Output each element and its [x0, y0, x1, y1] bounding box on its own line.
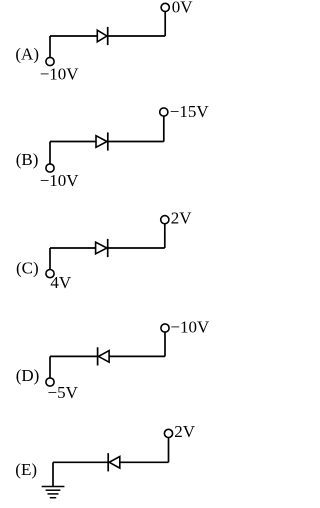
wire horizontal right segment (D) [109, 355, 165, 357]
terminal (D) bottom, -5V node [46, 378, 54, 386]
wire down to -5V terminal (D) [49, 356, 51, 377]
wire down to -10V terminal (A) [49, 36, 51, 57]
svg-text:(B): (B) [16, 150, 39, 169]
wire down to 4V terminal (C) [49, 248, 51, 269]
svg-text:−10V: −10V [40, 65, 80, 84]
wire from -10V terminal down [164, 332, 166, 356]
terminal (B) top, -15V node [160, 108, 168, 116]
svg-text:2V: 2V [174, 422, 196, 441]
svg-text:2V: 2V [171, 209, 193, 228]
terminal (E) top, 2V node [164, 429, 172, 437]
svg-text:(D): (D) [16, 366, 40, 385]
diode (A) pointing right [97, 27, 107, 45]
wire from 0V terminal down [164, 12, 166, 37]
node label -10V [40, 65, 80, 84]
node label 2V (E) [174, 422, 196, 441]
terminal (A) bottom, -10V node [46, 57, 54, 65]
diode (B) pointing right [96, 132, 108, 150]
svg-text:−15V: −15V [170, 102, 210, 121]
node label 0V [172, 0, 194, 17]
node label -15V [170, 102, 210, 121]
label (B) [16, 150, 39, 169]
wire horizontal right segment (A) [108, 35, 166, 37]
svg-text:0V: 0V [172, 0, 194, 17]
label (E) [15, 460, 37, 479]
terminal (D) top, -10V node [161, 324, 169, 332]
diode (C) pointing right [96, 239, 108, 257]
terminal (A) top, 0V node [161, 3, 169, 11]
terminal (B) bottom, -10V node [46, 164, 54, 172]
svg-text:(A): (A) [15, 45, 39, 64]
wire from 2V terminal down [168, 438, 170, 463]
diode (D) pointing left [98, 347, 110, 365]
ground [42, 487, 65, 498]
terminal (C) bottom, 4V node [46, 270, 54, 278]
label (C) [16, 258, 39, 277]
wire horizontal left segment (E) [53, 461, 108, 463]
wire horizontal left segment (B) [50, 141, 96, 143]
wire from 2V terminal down [164, 224, 166, 248]
wire horizontal left segment (C) [50, 247, 96, 249]
wire horizontal right segment (B) [108, 141, 164, 143]
diode (E) pointing left [108, 453, 120, 471]
svg-text:−5V: −5V [48, 383, 79, 402]
terminal (C) top, 2V node [161, 216, 169, 224]
wire horizontal left segment (A) [50, 35, 97, 37]
svg-text:4V: 4V [50, 273, 72, 292]
wire horizontal right segment (E) [120, 461, 169, 463]
wire horizontal left segment (D) [50, 355, 98, 357]
node label -10V (B) [40, 171, 80, 190]
node label 4V [50, 273, 72, 292]
svg-text:(E): (E) [15, 460, 37, 479]
node label -10V (D) [170, 318, 210, 337]
node label 2V (C) [171, 209, 193, 228]
wire down to -10V terminal (B) [49, 142, 51, 164]
svg-text:−10V: −10V [170, 318, 210, 337]
wire from -15V terminal down [163, 116, 165, 141]
label (D) [16, 366, 40, 385]
wire horizontal right segment (C) [108, 247, 165, 249]
wire down to ground (E) [52, 462, 54, 486]
node label -5V [48, 383, 79, 402]
svg-text:−10V: −10V [40, 171, 80, 190]
label (A) [15, 45, 39, 64]
svg-text:(C): (C) [16, 258, 39, 277]
